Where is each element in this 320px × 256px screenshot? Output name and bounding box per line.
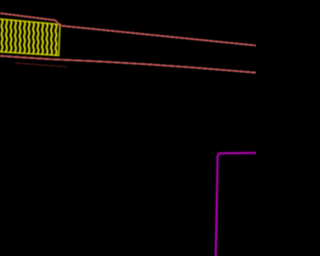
wire net1 top trace — [0, 13, 256, 45]
board edge corner glow — [216, 153, 257, 256]
wire net3 faint dark stub — [15, 63, 67, 67]
inductor L1 body outline — [0, 19, 60, 56]
wire net2 bottom trace — [0, 56, 256, 73]
inductor L1 winding hatch — [2, 20, 57, 56]
board edge corner — [216, 153, 257, 256]
